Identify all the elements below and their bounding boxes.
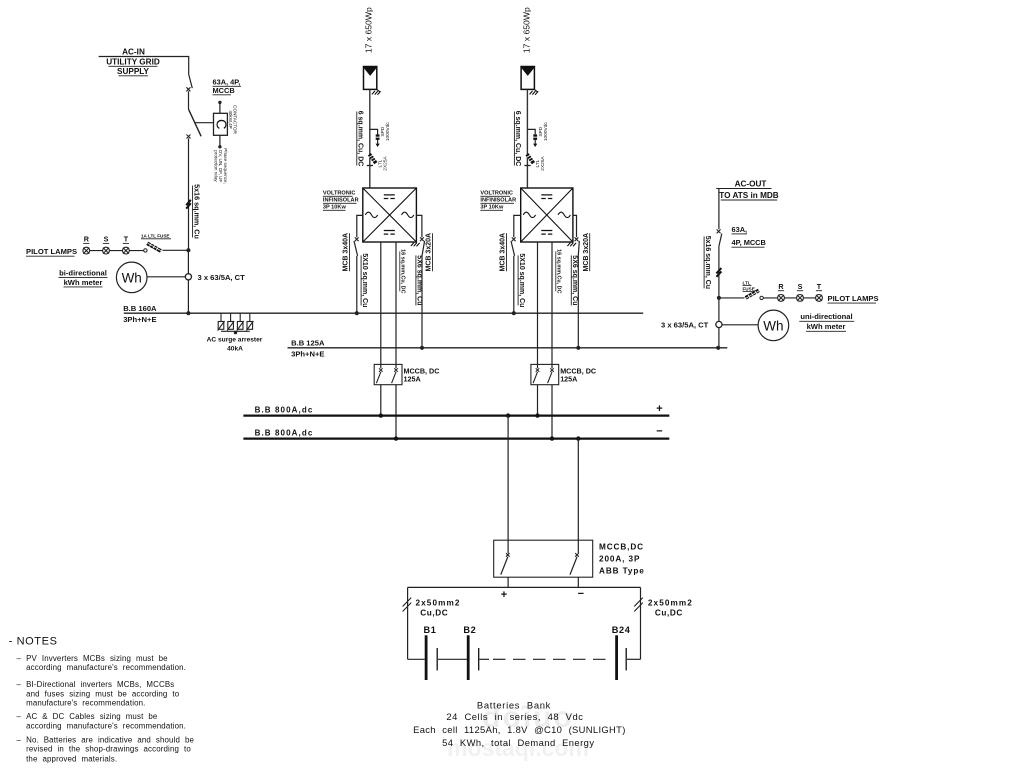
svg-text:Cu,DC: Cu,DC [655,608,683,617]
breaker 200A pole2 x [575,553,579,557]
svg-text:2X25A: 2X25A [540,156,546,171]
MCB1b blade [422,241,425,256]
wire AC-OUT riser top [718,189,720,230]
wire (2) pole2 below box [551,385,553,439]
svg-text:ABB Type: ABB Type [599,566,645,575]
wire contactor link [195,122,213,124]
lamp R right [778,295,823,302]
inverter U2 AC sine left [523,212,535,217]
svg-text:kWh meter: kWh meter [807,322,846,331]
svg-text:3Ph+N+E: 3Ph+N+E [291,350,324,359]
bus B.B 800A dc negative [243,438,669,440]
contactor K1 blade [189,109,202,136]
PV array PV1 panel [364,67,377,90]
battery B24 positive plate [615,635,618,680]
battery B1 positive plate [425,635,428,680]
label 16 sq.mm Cu DC (2) [555,249,561,293]
cable mark on AC-IN riser [186,200,191,209]
breaker (1) pole1 x [379,368,383,372]
breaker (1) pole1 blade [376,372,380,383]
SPD1 arrow dot [376,144,380,147]
wire pilot junction to CT right [718,298,720,322]
lamp R [83,247,129,254]
junction dot feeder positive on plus bus [506,413,510,417]
inverter U2 diagonals [521,188,573,242]
label LTL 2X25A (2) [535,156,546,171]
fuse F2 cartridge [746,290,759,298]
wire (2) pole1 below box [537,385,539,416]
wire battery right drop [640,587,642,659]
fuse hinge circle right [760,296,763,299]
MCB1a blade [354,241,358,256]
battery B2 positive plate [467,635,470,680]
inverter U1 AC sine right [402,212,414,217]
svg-text:1000Vdc: 1000Vdc [543,122,549,142]
wire (1) pole1 below box [380,385,382,416]
svg-text:INFINISOLAR: INFINISOLAR [480,198,516,204]
svg-text:3P 10Kw: 3P 10Kw [323,205,347,211]
label SPD 1000Vdc (1) [380,122,391,142]
label 5X10 sq.mm Cu (1) [361,253,368,307]
cable mark on AC-OUT riser [716,268,721,277]
inverter U2 box [521,188,573,242]
wire positive feeder to battery MCCB [507,416,509,554]
contactor coil top dot [218,101,221,104]
svg-text:MCB 3x40A: MCB 3x40A [343,233,350,272]
MCB1b contact x [420,237,424,241]
junction dot pilot row [186,248,190,252]
junction dot inverter2 3x20A leg on 125A bus [576,346,580,350]
svg-text:manufacture's recommendation.: manufacture's recommendation. [26,699,145,708]
svg-text:Wh: Wh [122,270,142,285]
wire 200A pole2 to rail [577,577,579,587]
junction dot U2 negative on minus bus [550,436,554,440]
battery B1 negative plate [436,648,438,670]
label 5x16 sq.mm Cu (AC-OUT riser) [704,236,711,289]
wire B24 to rail [627,658,641,660]
wire battery top rail [408,586,641,588]
svg-text:16 sq.mm,Cu, DC: 16 sq.mm,Cu, DC [555,249,561,293]
inverter U2 AC sine right [558,212,570,217]
svg-text:according manufacture's recomm: according manufacture's recommendation. [26,721,186,730]
junction dot AC-OUT riser on 125A bus [716,346,720,350]
svg-text:24 Cells in series, 48 Vdc: 24 Cells in series, 48 Vdc [446,711,583,722]
svg-text:MCCB: MCCB [213,86,235,95]
breaker 200A pole1 x [506,553,510,557]
junction dot inverter1 AC leg on 160A bus [355,311,359,315]
wire SPD1 branch [370,129,378,134]
svg-text:the approved materials.: the approved materials. [26,755,117,764]
svg-text:B.B 125A: B.B 125A [291,338,325,347]
breaker MCCB DC 200A box [494,540,593,577]
svg-text:S: S [798,282,803,291]
fuse F1 cartridge [147,243,161,251]
svg-text:VOLTRONIC: VOLTRONIC [480,191,513,197]
svg-text:5x16 sq.mm, Cu: 5x16 sq.mm, Cu [704,236,711,289]
svg-text:54 KWh, total Demand Energy: 54 KWh, total Demand Energy [442,737,594,748]
svg-text:B.B 160A: B.B 160A [123,304,157,313]
label 16 sq.mm Cu DC (1) [399,249,405,293]
svg-text:5X10 sq.mm, Cu: 5X10 sq.mm, Cu [518,253,525,307]
label MCB 3x40A (2) [500,233,507,272]
surge arrester common bar [221,330,250,332]
svg-text:5X10 sq.mm, Cu: 5X10 sq.mm, Cu [361,253,368,307]
junction dot inverter1 3x20A leg on 125A bus [420,346,424,350]
svg-text:5X6 sq.mm, Cu: 5X6 sq.mm, Cu [571,255,578,305]
battery B24 negative plate [625,648,627,670]
svg-text:BI-Directional inverters MCBs,: BI-Directional inverters MCBs, MCCBs [26,680,174,689]
lamp T [123,247,130,254]
MCB1a contact x [355,237,359,241]
SPD2 device [533,134,537,136]
meter M1 Wh circle [116,262,147,293]
svg-text:Wh: Wh [763,318,783,333]
wire U2 battery negative [551,242,553,364]
inverter U1 diagonals [363,188,417,242]
fuse LTL 2X25A (1) cartridge [369,154,376,163]
svg-text:AC-IN: AC-IN [122,48,145,57]
svg-text:200A, 3P: 200A, 3P [599,555,640,564]
svg-text:R: R [84,235,90,244]
svg-text:125A: 125A [404,375,421,384]
wire junction to fuse right [719,297,745,299]
surge arrester elements [218,322,224,330]
svg-text:PILOT LAMPS: PILOT LAMPS [828,294,879,303]
wire U2 AC tap left [514,215,521,237]
wire SPD1 tail [377,140,379,144]
label SPD 1000Vdc (2) [538,122,549,142]
svg-text:MCB 3x20A: MCB 3x20A [583,233,590,272]
svg-text:125A: 125A [560,375,577,384]
inverter U2 DC symbol top [541,195,552,199]
svg-text:MCCB,DC: MCCB,DC [599,542,644,551]
svg-text:INFINISOLAR: INFINISOLAR [323,198,359,204]
svg-text:B.B 800A,dc: B.B 800A,dc [255,406,314,415]
svg-text:2X25A: 2X25A [382,156,388,171]
wire MCB1b to 125A bus [421,256,423,348]
label LTL 2X25A (1) [377,156,388,171]
inverter U1 AC sine left [365,212,377,217]
label VOLTRONIC INFINISOLAR 3P 10Kw (1) [323,191,359,211]
breaker (2) pole2 blade [548,372,552,383]
svg-text:MCB 3x40A: MCB 3x40A [500,233,507,272]
wire MCB2a to 160A bus [513,256,515,313]
svg-text:B1: B1 [424,625,437,635]
svg-text:bi-directional: bi-directional [59,268,107,277]
svg-text:1A LTL FUSE: 1A LTL FUSE [141,233,170,238]
inverter U2 DC symbol bottom [541,231,552,235]
breaker 200A pole1 blade [501,557,508,575]
wire MCB1a to 160A bus [356,256,358,313]
label 6 sq.mm Cu DC (string 2) [514,111,521,167]
svg-text:1000Vdc: 1000Vdc [385,122,391,142]
label 5x16 sq.mm Cu (AC-IN riser) [192,184,201,239]
svg-text:uni-directional: uni-directional [800,312,852,321]
breaker (2) pole2 x [550,368,554,372]
inverter U1 DC symbol bottom [384,231,395,235]
breaker CB1 contact x [186,87,190,91]
svg-text:40kW,4P: 40kW,4P [228,110,233,128]
label 17 x 650Wp (array 2) [521,7,531,53]
battery B2 negative plate [478,648,480,670]
svg-text:T: T [124,235,129,244]
svg-text:AC-OUT: AC-OUT [735,180,767,189]
label MCB 3x20A (1) [426,233,433,272]
wire negative feeder to battery MCCB [577,439,579,554]
ground U1 chassis [411,243,420,247]
breaker CB2 63A 4P MCCB blade [719,234,722,247]
breaker MCCB DC 125A (1) box [374,364,402,384]
breaker CB2 contact x [717,229,721,233]
CT circle right [716,321,722,327]
breaker MCCB DC 125A (2) box [531,364,559,384]
svg-text:AC & DC Cables sizing must be: AC & DC Cables sizing must be [26,712,158,721]
MCB2a blade [511,241,515,256]
breaker 200A pole2 blade [570,557,577,575]
svg-text:LTL: LTL [743,280,751,285]
svg-text:and fuses sizing must be accor: and fuses sizing must be according to [26,689,180,698]
breaker (1) pole1 wire [380,364,382,368]
svg-text:6 sq.mm, Cu, DC: 6 sq.mm, Cu, DC [357,111,364,167]
label 6 sq.mm Cu DC (string 1) [357,111,364,167]
surge arrester drops [221,313,250,321]
wire U2 battery positive [537,242,539,364]
wire CT to meter right [722,324,758,326]
wire rail to B1 [408,658,425,660]
wire battery left drop [407,587,409,659]
breaker (2) pole1 x [536,368,540,372]
svg-text:B.B 800A,dc: B.B 800A,dc [255,429,314,438]
junction dot U1 negative on minus bus [394,436,398,440]
svg-text:–: – [17,680,22,689]
lamp S right [797,295,804,302]
wire U1 battery negative [395,242,397,364]
breaker (1) pole2 x [394,368,398,372]
wire contactor coil top stub [219,103,221,113]
ground PV1 chassis [372,89,381,94]
SPD1 device [376,134,380,136]
wire U1 battery positive [380,242,382,364]
svg-text:2x50mm2: 2x50mm2 [648,599,693,608]
wire contactor coil bottom stub [219,135,221,146]
lamp S [103,247,110,254]
wire SPD2 branch [527,129,535,134]
wire CB1 to contactor [188,91,190,109]
cable mark right drop [634,598,643,612]
svg-text:SUPPLY: SUPPLY [117,67,150,76]
wire contactor to pilot junction [188,139,190,251]
breaker (1) pole2 wire [395,364,397,368]
wire B1 to B2 [438,658,467,660]
surge arrester earth dot [234,331,237,334]
inverter U1 DC symbol top [384,195,395,199]
wire MCB2b to 125A bus [577,256,579,348]
svg-text:40kA: 40kA [227,346,243,353]
svg-text:Each cell 1125Ah, 1.8V @C10 (S: Each cell 1125Ah, 1.8V @C10 (SUNLIGHT) [413,724,626,735]
label 5X6 sq.mm Cu (2) [571,255,578,305]
label 5X6 sq.mm Cu (1) [416,255,423,305]
svg-text:according manufacture's recomm: according manufacture's recommendation. [26,663,186,672]
wire (1) pole2 below box [395,385,397,439]
svg-text:AC surge arrester: AC surge arrester [207,337,263,344]
wire U1 AC tap left [357,215,363,237]
svg-text:5X6 sq.mm, Cu: 5X6 sq.mm, Cu [416,255,423,305]
wire SPD2 tail [534,140,536,144]
svg-text:B2: B2 [463,625,476,635]
svg-text:–: – [17,654,22,663]
svg-text:–: – [17,712,22,721]
svg-text:−: − [578,588,584,600]
svg-text:17 x 650Wp: 17 x 650Wp [364,7,374,53]
wire U1 AC tap right [416,215,422,237]
svg-text:kWh meter: kWh meter [64,278,103,287]
wire B2 onward dashed [480,658,490,660]
svg-text:Cu,DC: Cu,DC [420,608,448,617]
svg-text:63A,: 63A, [732,225,748,234]
svg-text:S: S [104,235,109,244]
contactor coil bottom dot [218,145,221,148]
svg-text:C: C [212,119,228,129]
svg-text:3 x 63/5A, CT: 3 x 63/5A, CT [661,321,709,330]
wire CT to 125A bus [718,328,720,348]
meter M2 Wh circle [758,310,789,341]
svg-text:PILOT LAMPS: PILOT LAMPS [26,247,77,256]
wire CB2 to pilot junction [718,246,720,298]
wire pilot lamp row left [86,250,143,252]
fuse LTL (2) contact tick [524,165,530,167]
breaker (2) pole1 blade [533,372,537,383]
label CONTACTOR 40kW 4P [228,105,238,134]
svg-text:5x16 sq.mm, Cu: 5x16 sq.mm, Cu [192,184,201,239]
inverter U1 box [363,188,417,242]
svg-text:3Ph+N+E: 3Ph+N+E [123,315,156,324]
breaker (1) pole2 blade [392,372,396,383]
SPD2 arrow dot [533,144,537,147]
svg-text:+: + [501,589,507,601]
svg-text:revised in the shop-drawings a: revised in the shop-drawings according t… [26,745,191,754]
svg-text:FUSE: FUSE [743,286,755,291]
label phase sequence relay [213,148,228,184]
label VOLTRONIC INFINISOLAR 3P 10Kw (2) [480,191,516,211]
lamp T right [816,295,823,302]
svg-text:MCB 3x20A: MCB 3x20A [426,233,433,272]
node AC-IN supply line [99,57,189,75]
svg-text:4P, MCCB: 4P, MCCB [732,238,766,247]
ground U2 chassis [567,243,576,247]
breaker (2) pole2 wire [551,364,553,368]
junction dot U2 positive on plus bus [535,413,539,417]
wire U2 AC tap right [573,215,577,237]
svg-text:UTILITY GRID: UTILITY GRID [106,58,160,67]
contactor K1 contact x [187,135,191,139]
fuse LTL (1) contact tick [367,165,373,167]
svg-text:protection relay: protection relay [213,150,218,182]
svg-text:–: – [17,735,22,744]
fuse hinge circle left [144,249,147,252]
wire PV1 string [369,89,371,188]
wire PV2 string [526,89,528,188]
ground PV2 chassis [530,89,539,94]
svg-text:R: R [778,282,784,291]
bus B.B 125A [288,347,728,349]
svg-text:B24: B24 [612,625,631,635]
svg-text:17 x 650Wp: 17 x 650Wp [521,7,531,53]
cable mark left drop [403,598,412,612]
svg-text:VOLTRONIC: VOLTRONIC [323,191,356,197]
junction dot pilot row right [717,296,721,300]
svg-text:3P 10Kw: 3P 10Kw [480,205,504,211]
MCB2b blade [578,241,579,256]
label 17 x 650Wp (array 1) [364,7,374,53]
svg-text:+: + [656,403,662,415]
wire fuse to junction [163,249,189,251]
contactor K1 box [214,113,228,135]
svg-text:3 x 63/5A, CT: 3 x 63/5A, CT [198,273,246,282]
svg-text:Batteries Bank: Batteries Bank [477,699,551,710]
svg-text:6 sq.mm, Cu, DC: 6 sq.mm, Cu, DC [514,111,521,167]
bus B.B 800A dc positive [243,415,669,417]
wire junction to bus [187,250,189,313]
PV array PV2 panel [521,67,534,90]
CT circle left [185,274,191,280]
wire fuse to lamps right [763,297,819,299]
label 5X10 sq.mm Cu (2) [518,253,525,307]
bus B.B 160A [124,312,643,314]
breaker (2) pole1 wire [537,364,539,368]
svg-text:TO ATS in MDB: TO ATS in MDB [719,191,779,200]
svg-text:No. Batteries are indicative a: No. Batteries are indicative and should … [26,735,194,744]
label MCB 3x40A (1) [343,233,350,272]
svg-text:- NOTES: - NOTES [9,636,58,648]
svg-text:2x50mm2: 2x50mm2 [416,599,461,608]
breaker CB1 63A 4P MCCB blade [189,74,193,88]
fuse LTL 2X25A (2) cartridge [527,154,534,163]
svg-text:PV Invverters MCBs sizing must: PV Invverters MCBs sizing must be [26,654,168,663]
junction dot inverter2 AC leg on 160A bus [512,311,516,315]
junction dot feeder negative on minus bus [576,436,580,440]
MCB2a contact x [512,237,516,241]
wire 200A pole1 to rail [507,577,509,587]
junction dot AC-IN riser on 160A bus [186,311,190,315]
label MCB 3x20A (2) [583,233,590,272]
svg-text:T: T [817,282,822,291]
svg-text:−: − [656,426,662,438]
wire meter to CT [147,276,185,278]
MCB2b contact x [575,237,579,241]
junction dot U1 positive on plus bus [379,413,383,417]
